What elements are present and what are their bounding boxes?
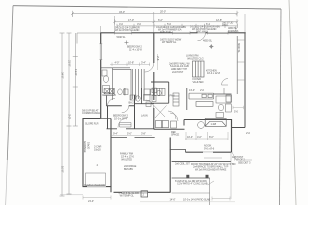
svg-text:VAULTED: VAULTED: [193, 80, 204, 84]
svg-text:10'-4 x 12'-8: 10'-4 x 12'-8: [207, 71, 220, 75]
patio posts: [186, 175, 189, 178]
wall: right exterior: [244, 33, 246, 128]
bath door arc: [222, 79, 229, 86]
svg-text:2x4 POST: 2x4 POST: [172, 70, 184, 74]
foyer text below closet: [193, 77, 204, 84]
svg-text:13'-6": 13'-6": [74, 69, 78, 76]
svg-text:2x6 CEIL JST: 2x6 CEIL JST: [175, 162, 190, 166]
svg-text:SEE DET 3: SEE DET 3: [238, 160, 251, 164]
paper edge right: [289, 0, 296, 205]
washer dryer boxes: [156, 121, 169, 128]
wall: right step connector y=127.5: [232, 127, 246, 129]
svg-text:13'-4": 13'-4": [189, 88, 195, 92]
bath interior dim: [233, 106, 244, 114]
bottom connector tick left dims: [60, 194, 83, 196]
garage storage rect: [86, 173, 106, 186]
garage bottom dim: [83, 196, 111, 200]
powder room walls: [151, 82, 169, 103]
detail reference box: [141, 191, 148, 197]
window: bedroom2 left: [100, 44, 102, 60]
ref box: [171, 121, 177, 128]
bottom dim line: [212, 197, 230, 201]
svg-text:COMMON WALL: COMMON WALL: [82, 111, 101, 115]
wall: left exterior: [100, 33, 102, 119]
right wall dim extension: [230, 152, 232, 199]
bedroom 3 dresser: [120, 123, 132, 128]
wall: hall bottom right y=129.3: [154, 128, 185, 130]
svg-text:9'-4": 9'-4": [113, 132, 118, 136]
svg-text:34'-0": 34'-0": [119, 10, 125, 14]
kitchen counters: [189, 93, 232, 106]
wall: nook left x=184: [183, 120, 185, 126]
garage outline: [83, 119, 111, 193]
window: living top: [173, 32, 191, 34]
page border left: [7, 6, 13, 160]
svg-text:10'-8": 10'-8": [128, 61, 134, 65]
living room label: [186, 53, 204, 60]
closet X boxes upper hall: [103, 88, 114, 95]
annotation cluster A above bedroom2: [115, 26, 140, 33]
annotation cluster center (gas fp note): [169, 61, 190, 73]
bedroom2 label: [127, 45, 142, 52]
svg-text:8'-0": 8'-0": [209, 135, 214, 139]
corridor door arc: [108, 98, 116, 106]
wall: bedroom2/living divider x=153.8: [153, 33, 155, 130]
sliding door bottom: [122, 191, 148, 193]
bedroom 3 door arc: [122, 106, 129, 113]
svg-text:21'-0": 21'-0": [68, 60, 72, 67]
note along patio line: [175, 179, 208, 186]
left dim line 2 (x=69): [67, 33, 72, 194]
wall: family/nook divider x=170.2: [169, 138, 171, 193]
linen closet hatch: [155, 88, 166, 95]
dimension row 2: [113, 19, 238, 24]
svg-text:LAUN: LAUN: [141, 113, 148, 117]
mud room notes above garage: [82, 108, 101, 115]
svg-text:VAULTED CLG: VAULTED CLG: [187, 56, 204, 60]
svg-text:3'-4": 3'-4": [141, 61, 146, 65]
svg-text:BA 2: BA 2: [129, 100, 135, 104]
svg-text:10'-0 x 14'-0 PATIO SLAB: 10'-0 x 14'-0 PATIO SLAB: [183, 198, 211, 202]
wall: corridor x=106.4: [105, 96, 107, 106]
bedroom2 dim text row: [110, 61, 150, 66]
interior dim text row y=138 right: [185, 132, 228, 140]
kitchen label: [206, 68, 220, 75]
svg-text:10'-0 x 10'-4: 10'-0 x 10'-4: [114, 117, 127, 121]
svg-text:17'-0": 17'-0": [128, 18, 134, 22]
extension line x=100: [100, 26, 102, 33]
fireplace: [205, 119, 226, 127]
annotation cluster B above living: [156, 25, 186, 34]
living room fan symbol: [209, 44, 214, 49]
svg-text:2'-0: 2'-0: [246, 131, 251, 135]
svg-text:VAULTED: VAULTED: [121, 157, 132, 161]
extension line x=114.5: [114, 16, 116, 33]
svg-text:W/ 2x4 POST EA END: W/ 2x4 POST EA END: [115, 28, 139, 32]
garage door opening bottom: [87, 186, 106, 188]
wall: right lower x=231.5: [231, 119, 233, 152]
page border right: [280, 9, 282, 205]
wall x=186.8 kitchen: [186, 88, 188, 110]
window: entry top: [208, 32, 229, 34]
hall lower wall y=128.8 left: [107, 128, 154, 130]
svg-text:3'-0": 3'-0": [68, 114, 72, 119]
kitchen dim text row: [189, 88, 205, 92]
svg-text:20'-0": 20'-0": [160, 9, 166, 13]
interior dim text row y=134 left: [110, 132, 152, 136]
dimension row 1: [71, 11, 238, 17]
extension line from row1 left to plan: [71, 14, 73, 17]
svg-text:4'-0": 4'-0": [197, 135, 202, 139]
leader lines bottom right: [204, 152, 252, 185]
front door opening + swing: [198, 33, 206, 41]
svg-text:10'-4": 10'-4": [187, 135, 193, 139]
svg-text:1-3/8: 1-3/8: [211, 122, 217, 126]
svg-text:19x20: 19x20: [87, 142, 91, 150]
svg-text:9'-0 x 8'-6: 9'-0 x 8'-6: [204, 146, 215, 150]
bedroom door dim: [156, 54, 160, 70]
svg-text:21'-4": 21'-4": [88, 199, 94, 203]
nook label: [204, 144, 215, 151]
svg-text:6040 SL: 6040 SL: [237, 43, 241, 53]
svg-text:5'-0": 5'-0": [127, 132, 132, 136]
svg-text:PAN: PAN: [170, 93, 175, 97]
extension line x=235.9: [235, 26, 237, 33]
bedroom 3 walls: [106, 95, 134, 129]
svg-text:5'-0: 5'-0: [234, 109, 239, 113]
bottom right note cluster 2: [232, 155, 251, 165]
wall bath2/laundry x=141.5: [141, 88, 143, 104]
nook bottom door opening: [203, 151, 213, 153]
patio right x=209.7: [209, 178, 211, 205]
svg-text:11'-4 x 10'-8: 11'-4 x 10'-8: [129, 48, 142, 52]
bedroom2 fan cross: [125, 41, 129, 45]
window inner line right wall: [236, 36, 238, 94]
wall: bottom y=192.3: [114, 191, 171, 193]
svg-text:6'-2": 6'-2": [158, 18, 163, 22]
svg-text:34'-0": 34'-0": [61, 72, 65, 79]
extension line x=245 top: [244, 14, 246, 33]
svg-text:4'-0": 4'-0": [115, 61, 120, 65]
svg-text:COV PATIO 4" CONC SLAB: COV PATIO 4" CONC SLAB: [177, 182, 208, 186]
hall bath2 fixtures: [118, 89, 151, 107]
svg-text:BM ABV: BM ABV: [124, 167, 133, 171]
svg-text:W/ TEMP GL: W/ TEMP GL: [120, 194, 135, 198]
eave line left of house: [77, 33, 100, 44]
bath fixtures right cluster: [216, 88, 231, 118]
svg-text:19x20: 19x20: [94, 147, 101, 151]
wall: nook top y=119.5: [184, 119, 232, 121]
hall door swing diagonals: [154, 106, 178, 122]
wall kitchen/bath divider y=94: [214, 93, 232, 95]
entry closet: [193, 61, 205, 77]
misc interior door arcs: [118, 63, 176, 128]
dimension row 3: [117, 24, 238, 28]
svg-text:10'-0": 10'-0": [61, 166, 65, 173]
ref side texts: [171, 130, 179, 137]
garage rotated text: [83, 121, 102, 167]
round table nook: [198, 122, 205, 129]
svg-text:4'-0: 4'-0: [119, 22, 124, 26]
bottom right note cluster 1: [175, 162, 236, 172]
left dim line 3 (x=75.3): [73, 33, 78, 126]
svg-text:3'-0: 3'-0: [137, 22, 142, 26]
svg-text:14'-0": 14'-0": [170, 198, 176, 202]
patio line y=178: [172, 177, 210, 179]
svg-text:2'-8: 2'-8: [156, 56, 160, 61]
window label top living: [160, 37, 213, 44]
annotation cluster C above entry: [190, 25, 220, 34]
svg-text:4050 SL: 4050 SL: [203, 38, 213, 42]
pantry hatch strip: [173, 93, 179, 106]
window: bedroom2 top: [115, 32, 132, 34]
svg-text:5040 SL: 5040 SL: [117, 35, 127, 39]
wall: y=149.5 segment: [170, 150, 186, 153]
patio bottom y=193: [172, 192, 210, 194]
bedroom 3 label: [113, 114, 128, 121]
svg-text:2'-0: 2'-0: [200, 88, 205, 92]
powder fixtures: [152, 88, 161, 101]
annotation cluster D right end: [222, 20, 239, 32]
left dim line 1 (x=62): [60, 33, 65, 196]
wall: hall bottom left y=137.5: [111, 137, 155, 139]
hall cabinet rects: [144, 89, 154, 95]
svg-text:9'-0x8'-0 OVHD DR: 9'-0x8'-0 OVHD DR: [84, 183, 105, 187]
extension line x=153.8: [153, 12, 155, 33]
svg-text:END TYP: END TYP: [160, 30, 171, 34]
svg-text:SPACE: SPACE: [171, 133, 179, 137]
wall: hall top y=103.7: [135, 103, 154, 105]
svg-text:3'-8": 3'-8": [141, 132, 146, 136]
patio roof line y=161.4: [172, 160, 231, 162]
faint bottom dim line: [140, 201, 235, 203]
wall: family bottom y=152.2: [186, 151, 232, 153]
page border top: [13, 6, 281, 9]
wall closet/bath2 x=124.9: [124, 88, 126, 95]
family room labels: [120, 151, 134, 161]
bedroom2 closet block: [101, 68, 144, 100]
wall: top exterior: [100, 32, 245, 34]
svg-text:W/ TEMP GL: W/ TEMP GL: [162, 40, 177, 44]
bath fixtures left (toilet, sink): [102, 70, 110, 93]
svg-text:W/ 2x6 FASCIA BD AT RAKE: W/ 2x6 FASCIA BD AT RAKE: [195, 168, 227, 172]
svg-text:SLOPE FLR: SLOPE FLR: [85, 121, 99, 125]
